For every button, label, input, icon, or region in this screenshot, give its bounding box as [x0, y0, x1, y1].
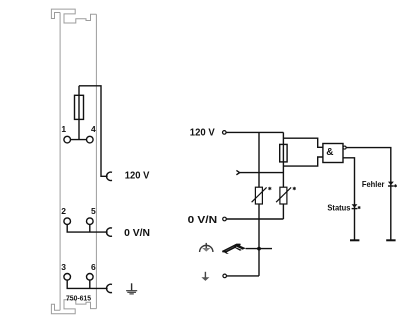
module left edge [59, 13, 61, 311]
wire fuse top to 120V clamp [79, 86, 108, 177]
svg-text:5: 5 [91, 206, 96, 216]
module bottom profile [51, 300, 96, 314]
svg-text:6: 6 [91, 262, 96, 272]
svg-text:120 V: 120 V [190, 128, 215, 139]
wire branch A down to varistor RV1 [258, 132, 260, 187]
node junction [257, 247, 261, 251]
LED Fehler [388, 182, 397, 188]
wire contact 1 to contact 4 [67, 139, 90, 141]
power jumper symbol (arc with arrow) [200, 243, 213, 252]
LED Status [352, 204, 361, 209]
svg-text:Status: Status [327, 203, 350, 213]
clamp terminal 0 V/N (module) [107, 228, 112, 236]
svg-text:3: 3 [61, 262, 66, 272]
terminal 0 V/N (schematic) [223, 217, 227, 221]
inverter bubble [343, 146, 346, 149]
earth arrow symbol [201, 272, 209, 281]
wire jumper line [240, 172, 284, 174]
svg-text:1: 1 [61, 124, 66, 134]
terminal 120 V (schematic) [223, 131, 227, 135]
fuse F2 [280, 144, 287, 162]
wire 0V/N bus [226, 218, 283, 220]
varistor RV1 [252, 187, 272, 204]
wire contacts 3/6 to earth clamp [67, 280, 107, 288]
svg-text:&: & [326, 147, 333, 158]
logic gate U1 [323, 144, 343, 163]
svg-text:750-615: 750-615 [66, 293, 92, 302]
contact 6 [87, 274, 94, 281]
svg-text:120 V: 120 V [125, 171, 150, 182]
clamp terminal 120 V (module) [107, 172, 112, 180]
wire varistor RV1 lead down to FE corner [258, 204, 260, 276]
svg-text:2: 2 [61, 206, 66, 216]
wire branch B down through fuse F2 to varistor RV2 [282, 132, 284, 187]
contact 1 [64, 136, 71, 143]
rail contact symbol [222, 244, 246, 254]
wire fuse line to contacts 1/4 [78, 86, 80, 140]
wire junction stub [246, 248, 272, 250]
wire contacts 2/5 to 0V clamp [67, 225, 107, 233]
module right edge [95, 14, 97, 308]
clamp terminal earth (module) [107, 284, 112, 292]
ground symbol (module) [126, 283, 137, 294]
contact 3 [64, 274, 71, 281]
wire varistor RV2 lead [282, 204, 284, 219]
wire to AND input 2 [283, 157, 323, 166]
module top profile [51, 9, 96, 23]
wire to AND input 1 [283, 138, 323, 147]
svg-text:0 V/N: 0 V/N [124, 228, 150, 239]
arrow from power jumper contact [236, 170, 239, 174]
ground bar Status [350, 239, 359, 241]
fuse F1 [75, 95, 84, 119]
wire AND output to Fehler line [346, 148, 391, 241]
terminal FE [223, 274, 227, 278]
contact 2 [64, 218, 71, 225]
svg-text:4: 4 [91, 124, 96, 134]
wire 120V bus [226, 131, 283, 133]
contact 5 [87, 218, 94, 225]
contact 4 [87, 136, 94, 143]
wire AND to Status line [343, 158, 355, 241]
svg-text:0 V/N: 0 V/N [188, 215, 218, 226]
svg-text:Fehler: Fehler [362, 179, 385, 189]
ground bar Fehler [386, 239, 395, 241]
varistor RV2 [276, 187, 296, 204]
wire FE to junction [227, 275, 260, 277]
